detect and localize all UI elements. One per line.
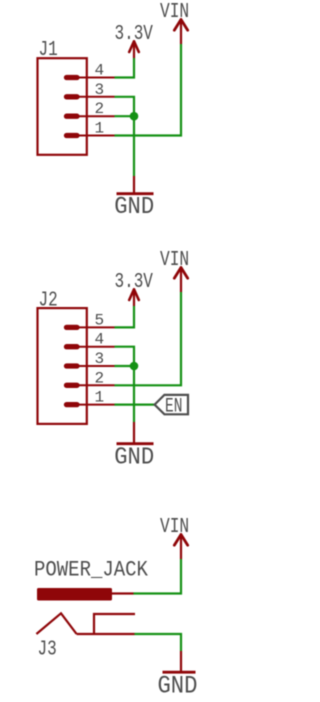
wire pin1 J1 to VIN bbox=[115, 44, 182, 136]
pin 2 of J2 bbox=[64, 384, 115, 386]
supply arrow 3.3V bbox=[129, 289, 139, 306]
svg-text:J3: J3 bbox=[38, 638, 57, 662]
svg-text:VIN: VIN bbox=[160, 247, 189, 272]
ground symbol GND (section 3) bbox=[163, 651, 196, 672]
svg-text:POWER_JACK: POWER_JACK bbox=[34, 558, 149, 583]
junction dot bbox=[130, 362, 139, 371]
pin 3 of J2 bbox=[64, 365, 115, 367]
svg-text:VIN: VIN bbox=[160, 0, 189, 24]
junction dot bbox=[130, 112, 139, 121]
supply arrow VIN bbox=[174, 20, 187, 45]
supply arrow VIN bbox=[174, 535, 187, 560]
jack J3 tip bar bbox=[37, 588, 112, 601]
wire pin3 J1 down to GND bbox=[115, 97, 135, 176]
jack J3 tip pin line bbox=[111, 592, 134, 594]
wire pin4 J2 down to GND bbox=[115, 347, 135, 422]
svg-text:4: 4 bbox=[95, 62, 105, 80]
net flag EN bbox=[155, 395, 188, 414]
svg-text:GND: GND bbox=[114, 445, 154, 472]
svg-text:1: 1 bbox=[95, 389, 105, 407]
svg-text:3: 3 bbox=[95, 350, 105, 368]
wire pin3 J2 bbox=[115, 365, 135, 367]
wire jack tip to VIN bbox=[134, 559, 182, 594]
svg-text:2: 2 bbox=[95, 369, 105, 387]
wire sleeve to GND bbox=[135, 634, 182, 651]
pin 1 of J1 bbox=[64, 135, 115, 137]
supply arrow VIN bbox=[174, 268, 187, 293]
pin 3 of J1 bbox=[64, 96, 115, 98]
wire pin2 J1 bbox=[115, 115, 135, 117]
jack J3 sleeve pin line bbox=[77, 633, 135, 635]
ground symbol GND (section 2) bbox=[117, 422, 154, 444]
svg-text:5: 5 bbox=[95, 311, 105, 329]
wire pin1 J2 to EN flag bbox=[115, 404, 155, 406]
supply arrow 3.3V bbox=[129, 41, 139, 58]
ground symbol GND (section 1) bbox=[117, 176, 154, 194]
jack J3 switch pin (zigzag) bbox=[36, 613, 76, 634]
wire pin4 J1 to 3.3V bbox=[115, 58, 135, 78]
svg-text:VIN: VIN bbox=[160, 514, 189, 539]
svg-text:GND: GND bbox=[114, 194, 154, 221]
svg-text:EN: EN bbox=[165, 395, 182, 418]
pin 5 of J2 bbox=[64, 326, 115, 328]
svg-text:1: 1 bbox=[95, 120, 105, 138]
svg-text:2: 2 bbox=[95, 100, 105, 118]
svg-text:3: 3 bbox=[95, 81, 105, 99]
pin 1 of J2 bbox=[64, 404, 115, 406]
pin 2 of J1 bbox=[64, 115, 115, 117]
connector J2 body bbox=[38, 308, 87, 424]
svg-text:GND: GND bbox=[158, 672, 198, 697]
pin 4 of J1 bbox=[64, 77, 115, 79]
pin 4 of J2 bbox=[64, 346, 115, 348]
wire pin2 J2 to VIN bbox=[115, 292, 182, 385]
jack J3 sleeve bracket bbox=[94, 614, 135, 634]
svg-text:4: 4 bbox=[95, 331, 105, 349]
wire pin5 J2 to 3.3V bbox=[115, 306, 135, 327]
connector J1 body bbox=[38, 58, 87, 155]
